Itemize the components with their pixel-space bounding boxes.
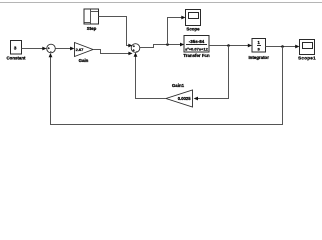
scope block Scope1 — [298, 40, 316, 61]
svg-text:3: 3 — [14, 46, 17, 51]
wire Transfer Fcn to Integrator — [209, 44, 252, 48]
svg-text:Constant: Constant — [6, 56, 26, 61]
sum junction Sum (circle) — [47, 44, 56, 53]
svg-text:Integrator: Integrator — [248, 55, 269, 60]
svg-text:Scope: Scope — [186, 27, 200, 32]
node branch to Gain1 (junction dot) — [227, 44, 230, 47]
step block Step — [84, 9, 99, 31]
svg-text:0.0025: 0.0025 — [178, 96, 191, 101]
svg-text:Step: Step — [87, 26, 97, 31]
gain block Gain1 (left-pointing triangle, value 0.0025) — [166, 83, 193, 107]
svg-text:+: + — [133, 48, 135, 52]
svg-text:2.67: 2.67 — [76, 47, 85, 52]
sum junction Sum1 (circle, 3 inputs) — [131, 44, 140, 54]
wire Gain1 to Sum1 bottom input — [134, 53, 166, 99]
integrator block Integrator (1/s) — [248, 39, 269, 60]
wire branch down to Gain1 — [194, 46, 229, 101]
scope block Scope — [186, 10, 201, 32]
svg-text:Gain: Gain — [79, 58, 89, 63]
wire Gain to Sum1 (jog down) — [93, 50, 133, 56]
wire Integrator to Scope1 — [266, 45, 300, 49]
wire Sum to Gain — [55, 47, 74, 51]
wire branch up to Scope — [168, 16, 186, 45]
wire Sum1 to Transfer Fcn (jog up) — [140, 43, 184, 48]
wire outer feedback loop (from Scope1 node, down and across bottom, up into Sum) — [49, 47, 283, 125]
svg-text:Scope1: Scope1 — [298, 56, 316, 61]
constant block Constant (value 3) — [6, 41, 26, 61]
transfer function block Transfer Fcn — [183, 36, 210, 59]
wire Constant to Sum — [22, 47, 47, 51]
svg-text:Transfer Fcn: Transfer Fcn — [183, 53, 210, 58]
node branch to Scope (junction dot) — [166, 43, 169, 46]
node branch to outer feedback (junction dot) — [281, 45, 284, 48]
svg-text:s²+0.07s+12: s²+0.07s+12 — [185, 47, 208, 52]
svg-text:Gain1: Gain1 — [172, 83, 185, 88]
top window border line — [0, 2, 322, 4]
wire Step to Sum1 (down into sum) — [99, 17, 133, 48]
gain block Gain (triangle, value 2.67) — [75, 43, 94, 63]
svg-text:-35s-84: -35s-84 — [189, 39, 205, 44]
